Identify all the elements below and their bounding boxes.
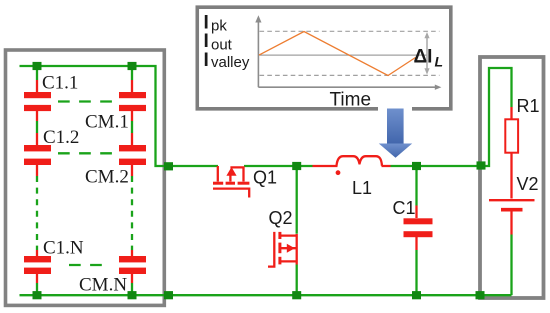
svg-text:R1: R1 bbox=[517, 96, 540, 116]
svg-text:L: L bbox=[435, 54, 444, 70]
svg-text:Time: Time bbox=[330, 90, 372, 111]
svg-text:V2: V2 bbox=[517, 174, 539, 194]
svg-text:Q2: Q2 bbox=[269, 208, 293, 228]
svg-text:I: I bbox=[204, 50, 209, 71]
svg-text:ΔI: ΔI bbox=[414, 47, 433, 68]
svg-text:pk: pk bbox=[211, 18, 227, 35]
svg-text:C1.1: C1.1 bbox=[42, 73, 78, 94]
svg-text:C1.2: C1.2 bbox=[43, 127, 79, 148]
svg-text:CM.1: CM.1 bbox=[85, 112, 129, 133]
svg-text:valley: valley bbox=[211, 54, 250, 71]
svg-text:CM.2: CM.2 bbox=[85, 167, 129, 188]
svg-text:Q1: Q1 bbox=[253, 168, 277, 188]
svg-text:C1: C1 bbox=[393, 198, 416, 218]
svg-text:L1: L1 bbox=[352, 178, 372, 198]
svg-text:out: out bbox=[211, 36, 233, 53]
svg-text:CM.N: CM.N bbox=[79, 275, 127, 296]
svg-text:C1.N: C1.N bbox=[43, 238, 84, 259]
svg-text:I: I bbox=[204, 31, 209, 52]
